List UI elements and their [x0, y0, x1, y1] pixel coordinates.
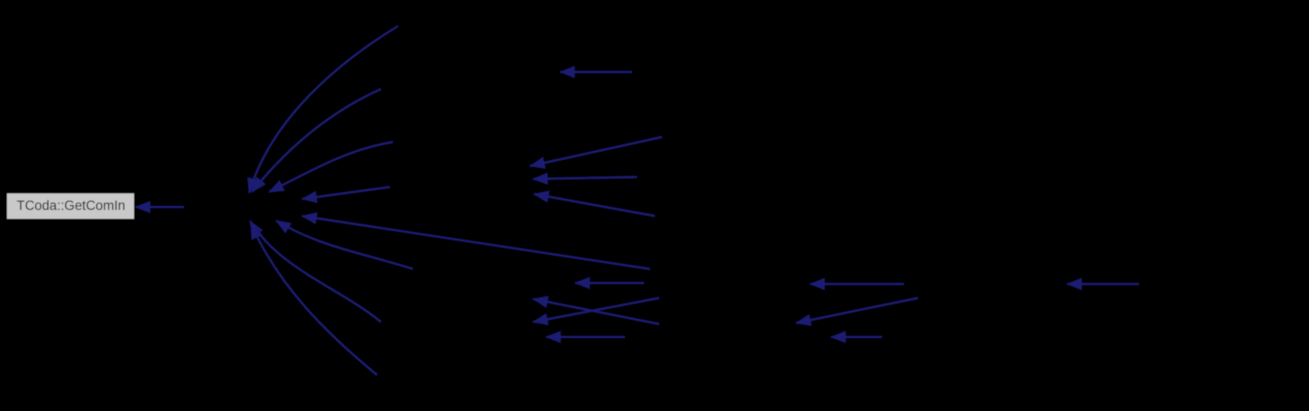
wire K1 — [810, 283, 904, 285]
wire C1 top curve — [249, 26, 398, 193]
wire T1 — [530, 137, 662, 166]
wire M4 — [546, 336, 625, 338]
wire D1 — [276, 221, 413, 270]
wire node2->root — [136, 206, 185, 208]
wire L1 — [1067, 283, 1139, 285]
wire C2 curve — [252, 89, 381, 192]
wire T3 — [534, 194, 655, 216]
wire XB cross up — [533, 298, 659, 322]
wire K2 — [796, 298, 918, 323]
wire T-top — [560, 71, 632, 73]
wire D3 curve — [251, 224, 377, 375]
wire C3 curve — [269, 142, 393, 192]
wire D2 curve — [250, 221, 381, 322]
wire long edge to node2 — [302, 216, 650, 269]
svg-text:TCoda::GetComIn: TCoda::GetComIn — [17, 198, 126, 213]
wire M2 — [575, 282, 644, 284]
wire K3 — [831, 336, 882, 338]
node root TCoda::GetComIn — [7, 193, 135, 220]
wire R1 — [302, 187, 390, 199]
wire XA cross down — [533, 299, 659, 324]
wire T2 — [533, 177, 637, 179]
